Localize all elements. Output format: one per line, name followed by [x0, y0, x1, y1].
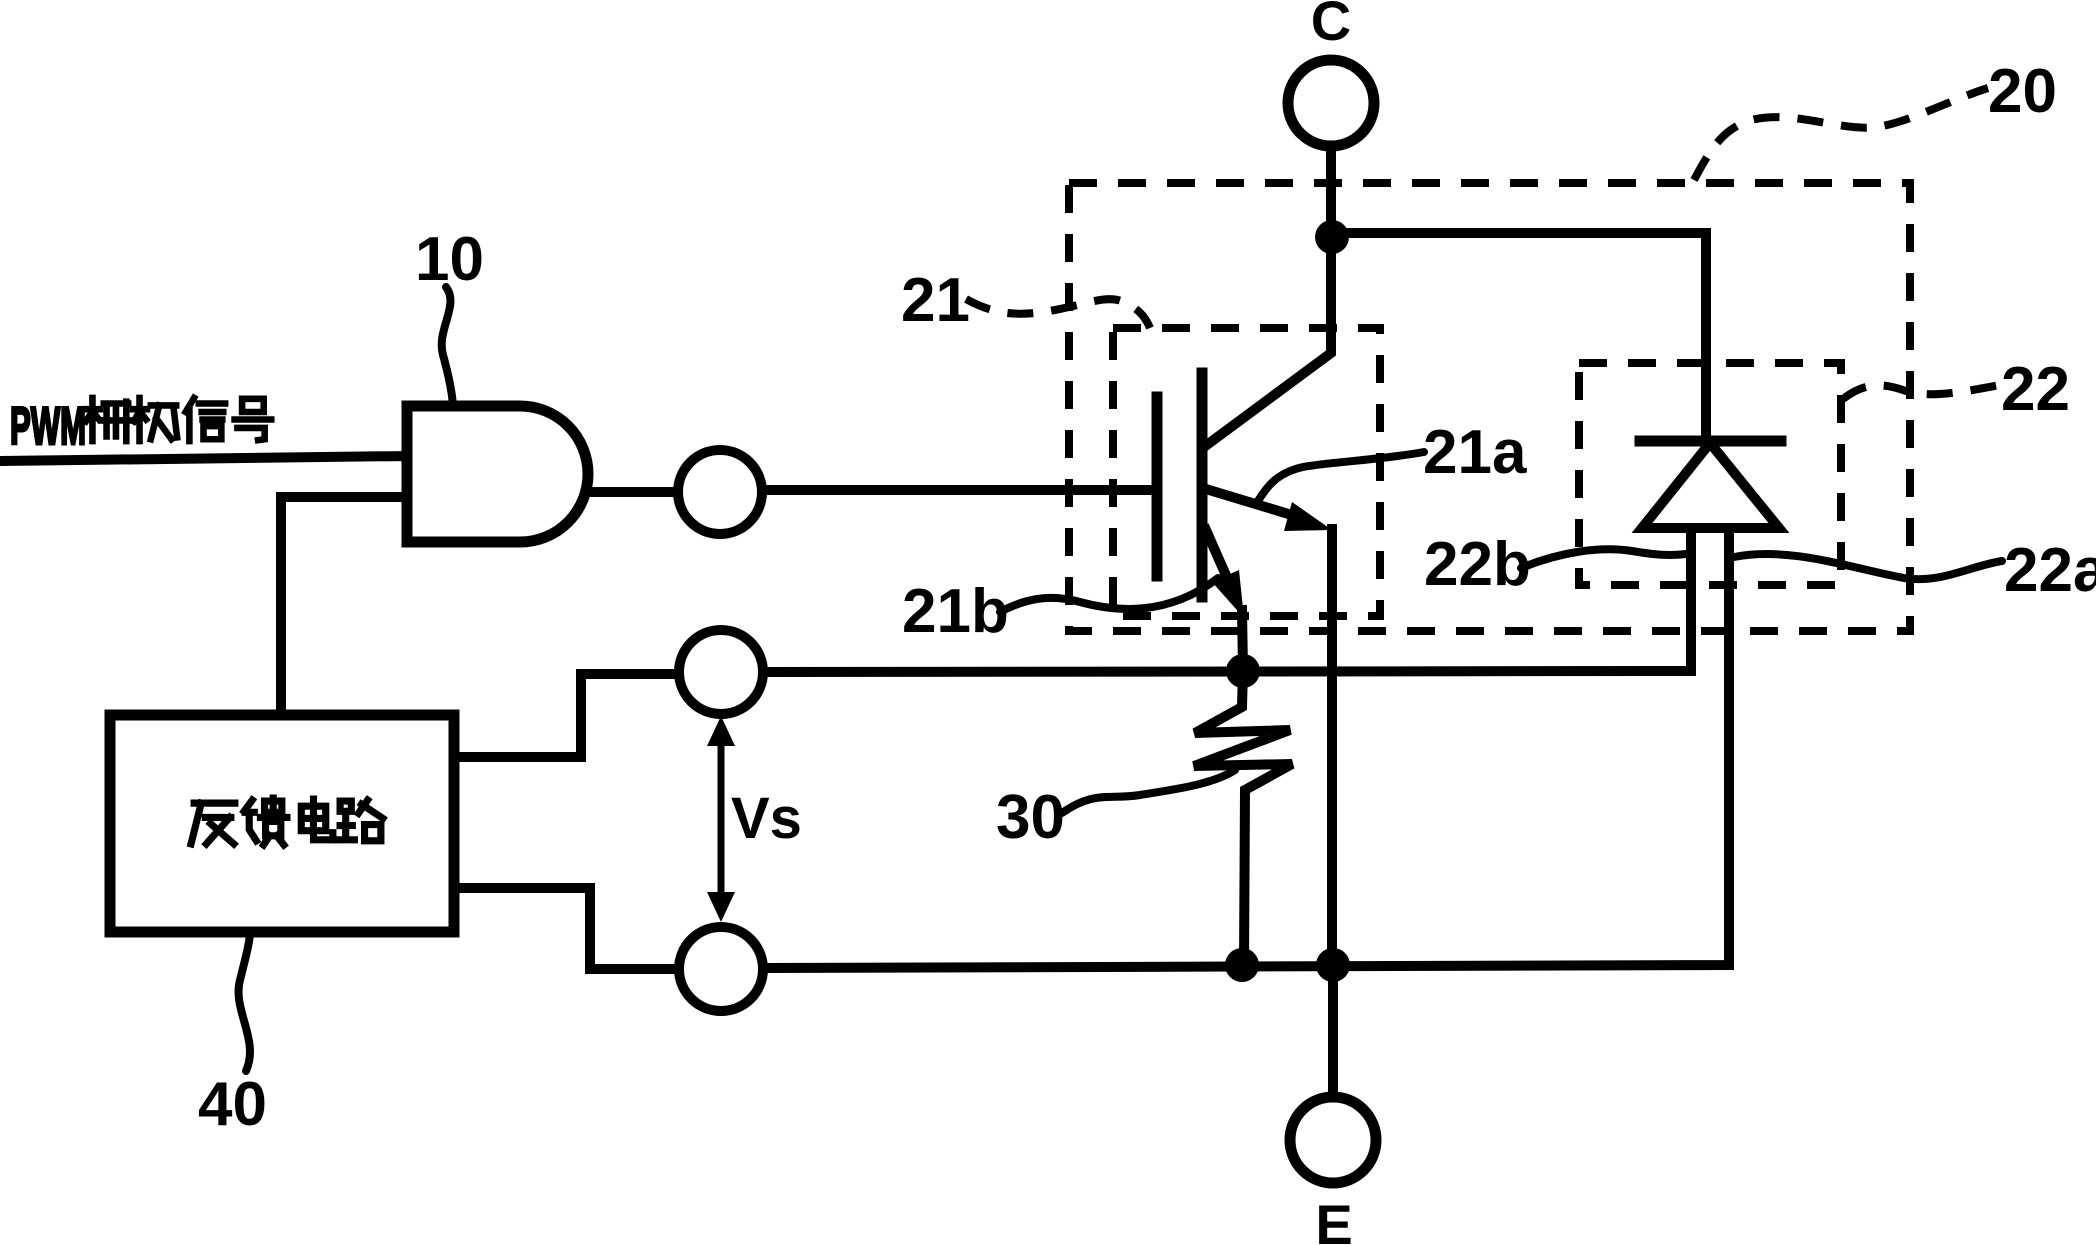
svg-text:22a: 22a: [2004, 536, 2096, 605]
svg-text:20: 20: [1988, 57, 2057, 126]
svg-text:21: 21: [901, 266, 970, 335]
svg-text:22b: 22b: [1424, 530, 1531, 599]
svg-text:PWM: PWM: [10, 397, 86, 456]
svg-text:22: 22: [2001, 355, 2070, 424]
svg-text:30: 30: [996, 783, 1065, 852]
svg-text:21b: 21b: [902, 577, 1009, 646]
svg-text:C: C: [1311, 0, 1351, 52]
svg-text:E: E: [1315, 1193, 1352, 1245]
svg-text:21a: 21a: [1423, 418, 1527, 487]
svg-text:Vs: Vs: [731, 786, 802, 851]
svg-text:10: 10: [415, 225, 484, 294]
svg-text:40: 40: [198, 1070, 267, 1139]
